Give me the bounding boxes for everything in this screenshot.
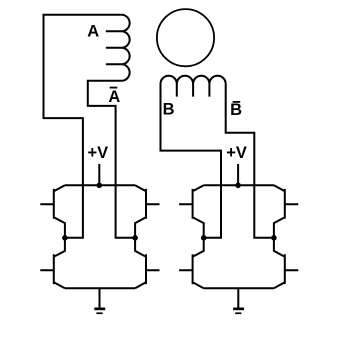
wire +V stem (right bridge) — [237, 164, 239, 185]
transistor Q2 (right bridge bottom-left) — [179, 238, 204, 288]
transistor Q3 (left bridge top-right) — [135, 185, 159, 238]
junction dot right (right bridge) — [271, 235, 277, 241]
transistor Q2 (left bridge bottom-left) — [40, 238, 65, 288]
svg-text:A: A — [108, 88, 120, 106]
wire bottom rail (left bridge) — [65, 287, 135, 289]
inductor winding B — [161, 76, 226, 97]
transistor Q4 (right bridge bottom-right) — [274, 238, 298, 288]
wire phase A-bar (coil A bottom to left bridge) — [88, 81, 135, 238]
wire phase B-bar (coil B right to right bridge) — [226, 84, 274, 238]
svg-text:B: B — [230, 101, 242, 119]
svg-text:A: A — [87, 23, 99, 41]
wire phase B (coil B left to right bridge) — [161, 84, 222, 238]
transistor Q1 (left bridge top-left) — [40, 185, 65, 238]
junction dot +V rail (right bridge) — [235, 183, 241, 189]
ground (right bridge) — [233, 288, 244, 313]
wire phase A (coil A top to left bridge) — [44, 15, 122, 238]
junction dot left (left bridge) — [62, 235, 68, 241]
wire bottom rail (right bridge) — [204, 287, 274, 289]
label A-bar — [108, 88, 120, 106]
svg-text:+V: +V — [226, 144, 247, 162]
wire top rail (left bridge) — [65, 184, 135, 186]
label B-bar — [230, 101, 242, 119]
junction dot right (left bridge) — [132, 235, 138, 241]
ground (left bridge) — [94, 288, 105, 313]
motor rotor circle — [157, 9, 214, 66]
svg-text:B: B — [163, 101, 175, 119]
transistor Q1 (right bridge top-left) — [179, 185, 204, 238]
inductor winding A — [106, 15, 130, 81]
wire +V stem (left bridge) — [98, 164, 100, 185]
transistor Q4 (left bridge bottom-right) — [135, 238, 159, 288]
wire top rail (right bridge) — [204, 184, 274, 186]
svg-text:+V: +V — [87, 144, 108, 162]
junction dot +V rail (left bridge) — [97, 183, 103, 189]
transistor Q3 (right bridge top-right) — [274, 185, 298, 238]
junction dot left (right bridge) — [201, 235, 207, 241]
